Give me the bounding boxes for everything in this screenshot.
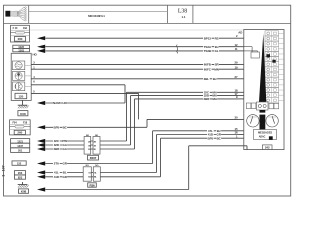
svg-text:60FB: 60FB bbox=[204, 63, 212, 67]
svg-text:NO: NO bbox=[95, 165, 98, 167]
dark warning icons bbox=[266, 54, 270, 57]
svg-text:NAM: NAM bbox=[53, 101, 60, 105]
svg-text:TS3B: TS3B bbox=[204, 49, 212, 53]
svg-text:2BR: 2BR bbox=[203, 97, 210, 101]
banner sub-line bbox=[29, 11, 168, 13]
svg-text:NO: NO bbox=[86, 165, 89, 167]
wire to pin 30 bbox=[147, 118, 239, 120]
component label 120 bbox=[15, 93, 27, 98]
arrow wire 2BR bbox=[37, 147, 45, 151]
code box 1363 bbox=[13, 49, 30, 52]
code box 823 bbox=[15, 175, 26, 179]
svg-text:2TA: 2TA bbox=[54, 162, 60, 166]
gauge needle wedge bbox=[259, 34, 266, 103]
connector R36 bbox=[83, 167, 91, 181]
arrow wire TS3A bbox=[37, 45, 45, 49]
svg-text:BP5: BP5 bbox=[54, 125, 60, 129]
ground K08 upper bbox=[22, 100, 24, 105]
page border frame bbox=[4, 5, 291, 196]
harness connector symbol in header bbox=[5, 11, 10, 17]
svg-text:120: 120 bbox=[18, 95, 23, 99]
fuse F10 box bbox=[11, 25, 30, 42]
arrow wire BP5 bbox=[37, 125, 45, 129]
svg-text:MR.0343F3.1: MR.0343F3.1 bbox=[88, 14, 105, 18]
fuse F04 box bbox=[10, 120, 31, 135]
arrow wire 41L bbox=[37, 170, 45, 174]
svg-text:MN: MN bbox=[214, 67, 219, 71]
fuse label 260 bbox=[14, 37, 25, 42]
component HO box bbox=[11, 53, 31, 100]
R107 label bbox=[88, 155, 99, 160]
svg-text:AD: AD bbox=[238, 31, 242, 35]
aux icon boxes right bbox=[269, 103, 274, 109]
svg-text:3BL: 3BL bbox=[204, 77, 210, 81]
icon box 1 (gauge symbol) bbox=[13, 61, 25, 70]
code box 201 bbox=[11, 148, 30, 153]
svg-text:K08: K08 bbox=[21, 190, 27, 194]
dark key square bbox=[269, 136, 273, 140]
svg-text:NO: NO bbox=[86, 135, 89, 137]
svg-text:F18: F18 bbox=[23, 121, 28, 124]
twisted pair mark bbox=[177, 45, 178, 54]
svg-text:2BR: 2BR bbox=[53, 147, 60, 151]
header divider x=167.4 bbox=[166, 5, 168, 23]
svg-text:F04: F04 bbox=[12, 121, 17, 124]
gauge dial left bbox=[247, 115, 259, 127]
arrow wire 41D bbox=[37, 175, 45, 179]
stalk black rod bbox=[260, 110, 266, 113]
svg-text:823: 823 bbox=[18, 175, 23, 179]
header divider x=28.7 bbox=[28, 5, 30, 23]
icon box 3 (temp symbol) bbox=[13, 82, 25, 91]
svg-text:F 10: F 10 bbox=[13, 27, 18, 30]
arrow wire TS3B bbox=[37, 49, 45, 53]
instrument cluster 242 outline bbox=[244, 30, 284, 150]
svg-text:ADAC: ADAC bbox=[259, 136, 266, 139]
svg-text:1363: 1363 bbox=[18, 48, 24, 52]
svg-text:260: 260 bbox=[17, 131, 22, 135]
svg-text:RS: RS bbox=[215, 36, 219, 40]
internal links bbox=[25, 64, 31, 66]
arrow wire 32C bbox=[37, 139, 45, 143]
arrow wire 2TA bbox=[37, 161, 45, 165]
svg-text:R107: R107 bbox=[90, 156, 97, 160]
code box 1222 bbox=[13, 45, 30, 48]
svg-text:41D: 41D bbox=[54, 175, 60, 179]
svg-text:3 - 107: 3 - 107 bbox=[1, 165, 5, 176]
svg-text:BP13: BP13 bbox=[204, 36, 212, 40]
svg-text:BJ: BJ bbox=[213, 77, 217, 81]
svg-text:K08: K08 bbox=[20, 112, 26, 116]
code box 203 bbox=[15, 171, 26, 175]
R36 label bbox=[88, 183, 97, 187]
header divider x=192.9 bbox=[192, 5, 194, 23]
warning lamp icon column bbox=[265, 31, 279, 36]
svg-text:R36: R36 bbox=[89, 183, 95, 187]
svg-text:260: 260 bbox=[18, 37, 23, 41]
internal routing pins 12/11 bbox=[244, 46, 252, 48]
fuse element bbox=[11, 32, 30, 34]
svg-text:152: 152 bbox=[17, 161, 22, 165]
stalk head box bbox=[257, 102, 269, 110]
icon box 2 (fuel symbol) bbox=[13, 71, 25, 80]
arrow wire NAM-HO bbox=[37, 101, 45, 105]
code box 1221 bbox=[11, 139, 30, 144]
svg-text:1221: 1221 bbox=[17, 139, 23, 143]
cluster label 242 bbox=[263, 145, 273, 150]
fuse element 2 bbox=[10, 126, 31, 128]
svg-text:1337: 1337 bbox=[17, 144, 23, 148]
harness fan-out wires bbox=[17, 8, 24, 12]
ground K08 lower bbox=[22, 182, 24, 185]
label BP13-RS bbox=[203, 36, 212, 39]
code box 152 bbox=[12, 161, 26, 165]
svg-text:201: 201 bbox=[18, 149, 23, 153]
svg-text:NO: NO bbox=[95, 135, 98, 137]
arrow wire 32D bbox=[37, 143, 45, 147]
svg-text:10A: 10A bbox=[23, 27, 28, 30]
svg-text:1.1: 1.1 bbox=[182, 15, 186, 19]
connector R107 bbox=[84, 137, 91, 155]
svg-text:L38: L38 bbox=[178, 9, 187, 15]
code box 1337 bbox=[11, 143, 30, 148]
gauge dial right bbox=[266, 115, 278, 127]
aux icon boxes left bbox=[246, 103, 251, 109]
svg-text:HO: HO bbox=[63, 101, 68, 105]
arrow wire BP13 bbox=[37, 36, 45, 40]
fuse 2 label 260 bbox=[14, 130, 25, 134]
svg-text:BP5: BP5 bbox=[208, 136, 214, 140]
arrow wire ground net bbox=[37, 187, 45, 191]
header bottom line bbox=[4, 22, 291, 24]
svg-text:242: 242 bbox=[265, 146, 270, 150]
svg-text:60FC: 60FC bbox=[204, 67, 212, 71]
svg-text:GL: GL bbox=[215, 49, 219, 53]
message display box bbox=[254, 130, 277, 140]
svg-text:MESSAGES: MESSAGES bbox=[258, 131, 272, 135]
light separator line bbox=[29, 29, 244, 31]
